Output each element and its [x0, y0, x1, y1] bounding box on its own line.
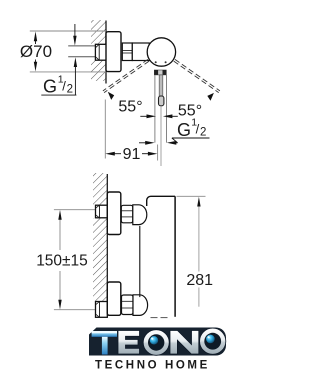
escutcheon Ø70 (top view) — [106, 32, 121, 72]
letter E (chrome) — [118, 331, 140, 355]
G1/2 label left — [41, 74, 76, 97]
91 extension line (x=157.5) — [157, 145, 159, 161]
91 dimension — [105, 100, 157, 164]
letter N (chrome) — [170, 331, 199, 355]
arc arrow right (55° dimension) — [207, 93, 214, 101]
svg-text:G: G — [43, 77, 57, 97]
svg-text:Ø70: Ø70 — [20, 42, 52, 61]
mixer body circle (top view) — [147, 38, 175, 66]
dashed lever position right 55° — [174, 59, 220, 92]
union nut (top view) — [122, 43, 132, 61]
G1/2 label right with leader — [172, 117, 210, 143]
body connector cap bottom (side view) — [133, 295, 148, 316]
outlet envelope lines — [155, 75, 167, 143]
svg-text:55°: 55° — [118, 99, 142, 116]
dashed lever position left 55° — [103, 59, 149, 92]
logo panel — [89, 328, 226, 356]
body connector cap top (side view) — [133, 205, 147, 225]
Ø70 dimension — [20, 31, 106, 72]
svg-text:/: / — [196, 122, 200, 137]
281 dimension — [177, 196, 214, 306]
arc arrow left (55° dimension) — [108, 92, 114, 100]
bottom outlet dashes — [151, 317, 168, 319]
svg-text:G: G — [177, 120, 191, 140]
supply pipe G1/2 (top view) — [68, 46, 95, 57]
G1/2 pipe dimension (left) — [73, 24, 77, 95]
svg-text:150±15: 150±15 — [36, 253, 88, 270]
union nut top (side view) — [121, 205, 133, 223]
letter T (blue) — [92, 331, 117, 355]
mixer body (side view) — [140, 196, 175, 316]
valve neck (top view) — [132, 43, 149, 61]
svg-text:TECHNO HOME: TECHNO HOME — [95, 360, 210, 372]
screw dots on body — [155, 61, 157, 63]
wall (side view, hatched) — [93, 173, 107, 318]
svg-text:2: 2 — [200, 127, 206, 139]
svg-text:281: 281 — [186, 272, 213, 289]
centre line below lever — [160, 106, 162, 166]
converging arrows at lever (55° dims) — [140, 114, 178, 118]
150 extension lines — [54, 210, 96, 310]
wall (top view, hatched) — [91, 20, 106, 84]
svg-text:91: 91 — [123, 146, 141, 163]
svg-text:2: 2 — [67, 84, 73, 96]
hex union in wall bottom (side view) — [96, 302, 108, 318]
svg-text:/: / — [62, 79, 66, 94]
concealed union hex (in wall, top view) — [95, 44, 106, 60]
hex union in wall top (side view) — [96, 205, 108, 218]
letter O2 (lens) — [200, 328, 226, 354]
escutcheon bottom (side view) — [107, 282, 121, 315]
svg-text:55°: 55° — [178, 103, 202, 120]
lever clamp base — [154, 70, 166, 75]
letter O1 (lens) — [143, 330, 169, 356]
union nut bottom (side view) — [122, 295, 134, 315]
lever shaft (pointing down) — [159, 75, 164, 106]
escutcheon top (side view) — [107, 192, 121, 235]
G1/2 outlet dimension arrows — [139, 141, 178, 145]
150±15 dimension — [36, 210, 88, 310]
